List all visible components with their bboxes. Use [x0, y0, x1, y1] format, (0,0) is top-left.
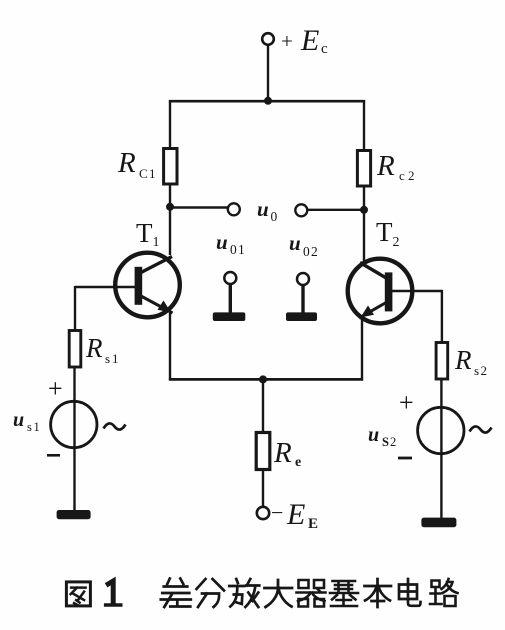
svg-text:−: −	[271, 500, 283, 525]
terminal u0 right	[295, 204, 307, 216]
svg-text:+: +	[399, 388, 414, 417]
svg-text:2: 2	[311, 244, 318, 259]
svg-text:u: u	[289, 231, 301, 255]
svg-text:u: u	[257, 197, 269, 221]
label u0	[257, 197, 278, 224]
svg-text:R: R	[85, 333, 103, 363]
wire Ec to top rail	[267, 45, 269, 101]
wire T2 base	[391, 290, 443, 292]
resistor Rc2	[357, 151, 370, 187]
label tilde us1	[104, 423, 126, 429]
svg-text:S: S	[382, 435, 389, 449]
wire junction to Re	[262, 380, 264, 433]
wire u02 stem	[301, 285, 304, 313]
wire rail to RC2	[363, 100, 365, 151]
label T1	[136, 218, 160, 250]
wire Rs2 through us2 to ground	[440, 379, 442, 519]
label Rs1	[85, 333, 119, 366]
transistor T2	[348, 259, 413, 324]
terminal u0 left	[228, 203, 240, 215]
label Re	[273, 437, 301, 470]
svg-text:E: E	[308, 516, 318, 532]
ground us1	[57, 510, 91, 519]
wire u0 tap left	[170, 206, 228, 208]
svg-text:1: 1	[238, 242, 245, 257]
svg-text:1: 1	[112, 351, 119, 366]
wire rail to RC1	[169, 100, 171, 149]
svg-text:s: s	[105, 351, 110, 366]
label us1	[13, 409, 40, 434]
wire RC1 to T1 collector	[169, 184, 171, 255]
svg-text:R: R	[117, 147, 136, 179]
terminal u02	[297, 273, 309, 285]
svg-text:T: T	[136, 218, 153, 248]
svg-text:2: 2	[393, 235, 400, 250]
wire u0 tap right	[308, 209, 365, 211]
svg-text:R: R	[454, 345, 472, 375]
char 放	[229, 579, 259, 607]
wire bottom rail	[169, 378, 363, 381]
svg-text:T: T	[376, 217, 393, 247]
char 分	[197, 579, 225, 607]
svg-text:+: +	[48, 374, 63, 403]
resistor Re	[256, 433, 270, 470]
label plus us2	[399, 388, 414, 417]
svg-text:E: E	[286, 498, 305, 531]
svg-text:+: +	[281, 29, 293, 53]
svg-text:2: 2	[481, 363, 488, 378]
wire T2 emitter down	[361, 318, 363, 381]
node top rail junction	[264, 97, 272, 105]
ground u01	[213, 312, 246, 321]
svg-text:0: 0	[303, 244, 310, 259]
node collector2 / u0 tap	[360, 206, 368, 214]
source us2	[418, 407, 464, 453]
ground u02	[286, 312, 317, 321]
label plus us1	[48, 374, 63, 403]
svg-text:s: s	[474, 363, 479, 378]
label u02	[289, 231, 318, 259]
svg-text:0: 0	[230, 242, 237, 257]
terminal -EE	[257, 507, 269, 519]
wire Re to -EE terminal	[262, 470, 264, 508]
svg-text:1: 1	[34, 420, 40, 434]
svg-text:u: u	[13, 409, 24, 431]
node emitter junction	[259, 375, 267, 383]
svg-text:1: 1	[149, 166, 156, 181]
char 图	[66, 582, 90, 606]
wire T2 base to Rs2	[441, 290, 443, 343]
char 器	[297, 580, 326, 607]
char 电	[399, 579, 421, 606]
label Rs2	[454, 345, 487, 378]
label us2	[368, 424, 396, 449]
char 1	[106, 581, 121, 605]
svg-text:C: C	[139, 166, 148, 181]
svg-text:1: 1	[153, 235, 160, 250]
svg-text:u: u	[368, 424, 379, 446]
resistor RC1	[164, 149, 177, 185]
node collector1 / u0 tap	[166, 203, 174, 211]
svg-text:2: 2	[408, 168, 415, 183]
wire top rail	[169, 100, 365, 103]
wire T1 base to Rs1	[74, 286, 76, 331]
label Rc2	[376, 150, 415, 183]
resistor Rs2	[436, 343, 448, 380]
svg-text:E: E	[300, 24, 319, 57]
label RC1	[117, 147, 156, 181]
wire Rc2 to T2 collector	[363, 186, 365, 261]
wire Rs1 through us1 to ground	[73, 367, 75, 511]
source us1	[51, 401, 97, 447]
svg-text:e: e	[295, 455, 301, 470]
ground us2	[421, 518, 456, 528]
svg-text:2: 2	[390, 435, 396, 449]
label minus us1	[47, 454, 60, 457]
char 差	[161, 579, 191, 608]
svg-text:R: R	[273, 437, 292, 469]
label u01	[216, 230, 245, 257]
svg-text:0: 0	[271, 209, 278, 224]
svg-text:c: c	[399, 168, 405, 183]
transistor T1	[115, 253, 180, 318]
label -EE	[271, 498, 318, 532]
wire u01 stem	[229, 284, 232, 313]
wire T1 emitter down	[169, 313, 171, 381]
label minus us2	[398, 457, 412, 460]
svg-text:u: u	[216, 230, 228, 254]
char 基	[330, 581, 358, 606]
svg-text:s: s	[27, 420, 32, 434]
resistor Rs1	[69, 331, 81, 368]
terminal u01	[224, 272, 236, 284]
char 本	[365, 579, 392, 607]
char 路	[430, 579, 458, 606]
wire T1 base	[75, 286, 136, 288]
terminal +Ec	[262, 33, 274, 45]
svg-text:R: R	[376, 150, 395, 182]
label T2	[376, 217, 400, 250]
char 大	[265, 580, 293, 607]
svg-text:c: c	[321, 41, 328, 57]
caption 图1 差分放大器基本电路	[66, 579, 457, 608]
label tilde us2	[470, 426, 492, 432]
label +Ec	[281, 24, 328, 57]
